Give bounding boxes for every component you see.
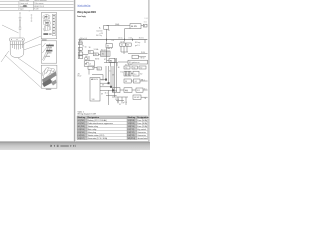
- svg-text:X4: X4: [89, 51, 91, 53]
- svg-text:Connector: Connector: [137, 131, 146, 134]
- svg-text:S1 key: S1 key: [135, 42, 140, 44]
- svg-text:31 s: 31 s: [105, 93, 108, 95]
- svg-text:G1(P01): G1(P01): [78, 120, 86, 122]
- svg-text:g 1.5: g 1.5: [123, 102, 127, 104]
- svg-text:Designation: Designation: [137, 116, 149, 119]
- svg-text:F12: F12: [137, 90, 140, 92]
- svg-text:K2: K2: [102, 54, 104, 56]
- svg-text:X5 X6 X7: X5 X6 X7: [125, 64, 132, 66]
- svg-text:31: 31: [119, 104, 121, 106]
- svg-text:Wiring diagram 6DHV: Wiring diagram 6DHV: [77, 10, 96, 14]
- svg-text:Fuse (15 A): Fuse (15 A): [137, 125, 147, 128]
- svg-text:Fuse (50 A): Fuse (50 A): [137, 119, 147, 122]
- svg-text:F2(P11): F2(P11): [128, 129, 135, 131]
- svg-text:Glow plug: Glow plug: [88, 132, 96, 134]
- svg-text:B+: B+: [99, 28, 101, 30]
- svg-text:X2(P09): X2(P09): [128, 123, 135, 125]
- svg-text:D1: D1: [98, 69, 100, 71]
- svg-text:X9: X9: [102, 85, 104, 87]
- svg-text:8.5: 8.5: [101, 79, 103, 81]
- svg-text:gn 1.5: gn 1.5: [135, 45, 140, 47]
- svg-text:Power Supply: Power Supply: [77, 16, 86, 18]
- svg-text:31 bl: 31 bl: [115, 99, 119, 101]
- svg-text:K2 rel: K2 rel: [101, 48, 106, 51]
- svg-text:F4(P13): F4(P13): [128, 135, 135, 137]
- svg-text:Starter relay: Starter relay: [88, 125, 98, 128]
- svg-text:2 4: 2 4: [134, 74, 136, 76]
- svg-text:31: 31: [117, 102, 119, 104]
- svg-text:Radio interference suppressor: Radio interference suppressor: [88, 122, 114, 125]
- svg-text:15: 15: [109, 70, 111, 72]
- svg-text:Main relay: Main relay: [88, 128, 97, 131]
- svg-text:1 3 5: 1 3 5: [125, 74, 129, 76]
- svg-text:X10: X10: [92, 99, 95, 101]
- svg-text:Marking: Marking: [78, 117, 86, 119]
- svg-text:K1: K1: [80, 41, 82, 43]
- svg-text:X0: X0: [82, 45, 84, 47]
- svg-text:X1(P08): X1(P08): [128, 120, 135, 122]
- svg-text:F5: F5: [80, 50, 82, 52]
- svg-text:Key switch: Key switch: [137, 128, 146, 131]
- svg-text:Model type: Model type: [19, 0, 30, 2]
- svg-text:X6: X6: [133, 67, 135, 69]
- svg-text:(30A): (30A): [115, 23, 120, 26]
- svg-text:30: 30: [118, 67, 120, 69]
- svg-text:Battery (12 V / 100 Ah): Battery (12 V / 100 Ah): [88, 119, 107, 122]
- svg-text:Fuse (30 A): Fuse (30 A): [137, 122, 147, 125]
- svg-text:rt 4: rt 4: [112, 39, 114, 42]
- svg-text:50: 50: [85, 47, 87, 49]
- svg-text:6DHV 14.5: 6DHV 14.5: [34, 6, 45, 8]
- svg-text:15 sw: 15 sw: [118, 38, 123, 40]
- svg-text:W1(P14): W1(P14): [128, 138, 136, 140]
- svg-text:Serial number: Serial number: [34, 0, 47, 2]
- svg-text:S1(P07): S1(P07): [78, 138, 85, 140]
- svg-text:15a: 15a: [120, 72, 123, 74]
- svg-text:F3(P12): F3(P12): [128, 132, 135, 134]
- svg-text:X2 X3: X2 X3: [120, 41, 125, 43]
- svg-text:X5: X5: [125, 67, 127, 69]
- svg-text:Designation: Designation: [88, 116, 100, 119]
- svg-text:G1(P02): G1(P02): [78, 123, 86, 125]
- svg-text:K3: K3: [107, 46, 109, 48]
- svg-text:30: 30: [89, 47, 91, 49]
- svg-text:Starter motor (12 V): Starter motor (12 V): [88, 134, 105, 137]
- svg-text:30 rt 6: 30 rt 6: [139, 37, 144, 40]
- svg-text:25: 25: [108, 30, 110, 32]
- svg-text:31: 31: [141, 79, 143, 81]
- svg-text:G2: G2: [135, 81, 137, 83]
- svg-text:Wiring diagram 6 DH: Wiring diagram 6 DH: [77, 114, 96, 116]
- svg-text:K1(P04): K1(P04): [78, 129, 85, 131]
- svg-text:G1 12V: G1 12V: [131, 26, 138, 28]
- svg-text:X3: X3: [127, 45, 129, 47]
- svg-text:F10: F10: [113, 90, 116, 92]
- svg-text:30 2.5q: 30 2.5q: [96, 35, 102, 37]
- svg-text:86 85: 86 85: [95, 58, 99, 60]
- svg-text:W 30: W 30: [141, 52, 145, 54]
- svg-text:Generator (12 V / 60 A): Generator (12 V / 60 A): [88, 137, 108, 140]
- svg-text:58: 58: [112, 74, 114, 76]
- svg-text:rt 25: rt 25: [99, 32, 102, 35]
- svg-text:X9: X9: [101, 93, 103, 95]
- svg-text:R1(P05): R1(P05): [78, 132, 85, 134]
- svg-text:M 50: M 50: [141, 57, 145, 59]
- svg-text:Title name: Title name: [34, 2, 44, 5]
- svg-text:30 br 6.0: 30 br 6.0: [80, 37, 87, 40]
- svg-text:G2: G2: [140, 73, 142, 75]
- svg-text:R2: R2: [110, 61, 112, 63]
- svg-text:S2: S2: [92, 68, 94, 70]
- svg-text:X2: X2: [121, 45, 123, 47]
- svg-text:M1 start: M1 start: [85, 63, 92, 66]
- svg-text:15 r: 15 r: [144, 88, 147, 91]
- svg-text:X7: X7: [140, 67, 142, 69]
- svg-text:87: 87: [104, 59, 106, 61]
- svg-text:Drive unit: Drive unit: [19, 2, 28, 5]
- svg-text:F1(P06): F1(P06): [78, 135, 85, 137]
- svg-text:Connector: Connector: [137, 134, 146, 137]
- svg-text:M2: M2: [137, 97, 139, 99]
- svg-text:M1(P03): M1(P03): [78, 126, 86, 128]
- svg-text:F11: F11: [125, 90, 128, 92]
- svg-text:S3: S3: [85, 56, 87, 58]
- svg-text:2-14: 2-14: [144, 18, 147, 20]
- svg-text:X3(P10): X3(P10): [128, 126, 135, 128]
- svg-text:rt 2.5: rt 2.5: [128, 37, 132, 40]
- svg-text:X8: X8: [125, 81, 127, 83]
- svg-text:A1: A1: [91, 78, 93, 81]
- svg-text:Marking: Marking: [128, 117, 136, 119]
- svg-text:Ground wire: Ground wire: [137, 137, 147, 140]
